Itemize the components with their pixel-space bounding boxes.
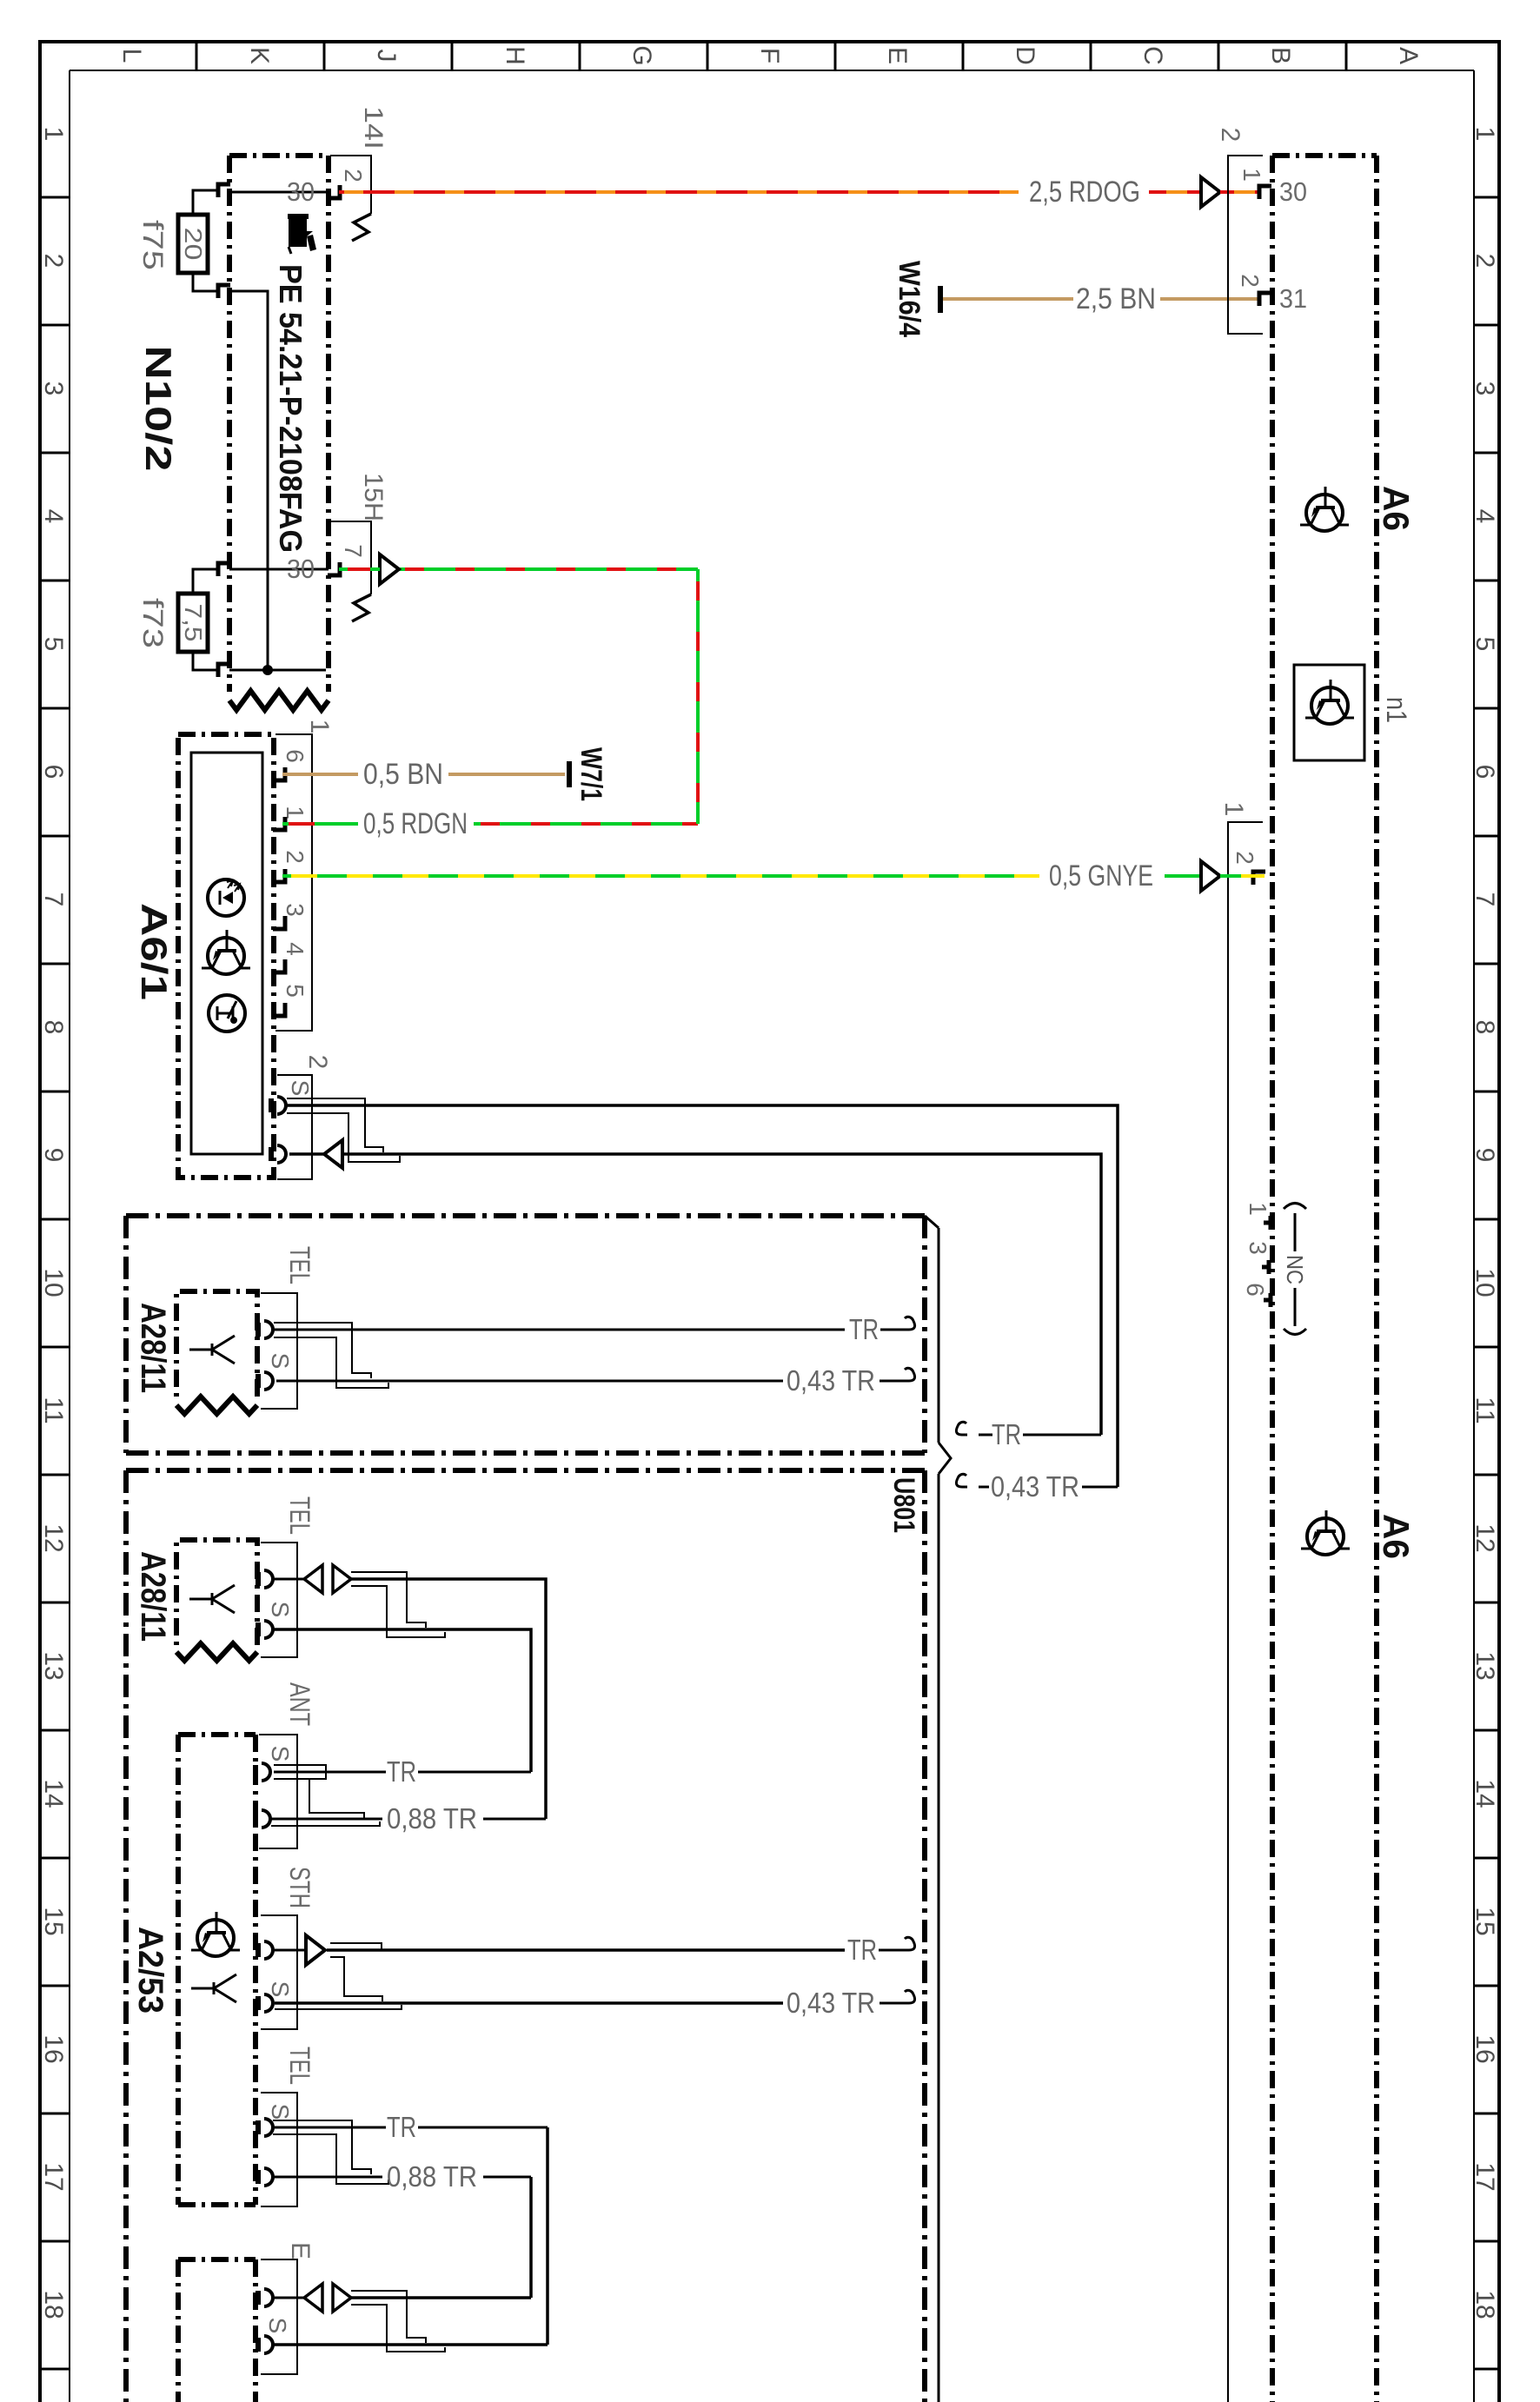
wire 2,5 BN [943,297,1073,301]
A6 connector 1 (lower, long) [1228,822,1263,2402]
svg-text:2: 2 [340,169,367,182]
svg-text:U801: U801 [887,1477,920,1533]
svg-text:7: 7 [39,892,68,907]
antenna symbol [191,1987,214,1990]
svg-text:3: 3 [282,903,309,917]
svg-text:D: D [1011,46,1039,65]
wire E pin1 to riser [351,2296,531,2299]
svg-text:ANT: ANT [284,1682,315,1726]
wire 0,88 TR from ANT [271,1818,382,1821]
svg-text:16: 16 [1470,2034,1499,2063]
svg-text:12: 12 [39,1523,68,1552]
svg-text:A6/1: A6/1 [134,903,175,1000]
svg-text:F: F [755,48,784,63]
wire TR from ANT [274,1771,386,1774]
svg-text:2: 2 [1231,851,1258,865]
svg-text:0,43 TR: 0,43 TR [991,1470,1079,1503]
RDGN riser [696,569,700,824]
wire TR row [327,1948,845,1952]
svg-text:S: S [267,1353,294,1370]
svg-text:5: 5 [39,637,68,652]
svg-text:18: 18 [1470,2290,1499,2319]
svg-text:A28/11: A28/11 [134,1303,172,1393]
svg-text:PE 54.21-P-2108FAG: PE 54.21-P-2108FAG [273,264,309,553]
box n1 [1294,665,1364,760]
component A28/11 (upper) [176,1291,257,1397]
svg-text:W7/1: W7/1 [574,747,607,801]
svg-text:4: 4 [282,942,309,956]
svg-text:3: 3 [1245,1241,1271,1255]
svg-text:12: 12 [1470,1523,1499,1552]
svg-text:TR: TR [992,1418,1021,1450]
svg-text:11: 11 [1470,1397,1499,1423]
double arrow E [274,2297,304,2299]
svg-text:C: C [1138,46,1167,65]
svg-text:1: 1 [305,720,334,734]
svg-text:S: S [267,1602,294,1618]
riser TEL 0,88TR down to E pin1 [529,2177,533,2298]
svg-text:10: 10 [39,1268,68,1297]
transistor symbol in A6/1 [208,938,244,974]
svg-text:TR: TR [387,1755,416,1788]
svg-text:S: S [267,1981,294,1998]
svg-text:S: S [287,1080,314,1097]
pin marks N10/2 [218,184,230,197]
connector 14I [330,156,371,214]
A6/1 connector 1 frame [275,734,312,1031]
svg-text:1: 1 [1219,802,1248,817]
component A28/11 (lower) [176,1540,257,1645]
shield box U801 upper [126,1213,925,1218]
TEL connector frame [261,1293,297,1409]
svg-text:6: 6 [1470,765,1499,780]
wire fuse f73 to pin [193,652,218,670]
svg-text:TEL: TEL [284,2047,315,2085]
svg-text:0,88 TR: 0,88 TR [387,1802,477,1835]
svg-text:15: 15 [39,1907,68,1935]
STH connector frame [261,1915,297,2029]
stub TR [956,1422,967,1435]
wire S pair upper [287,1105,1118,1487]
svg-text:11: 11 [39,1397,68,1423]
svg-text:4: 4 [1470,509,1499,524]
transistor symbol in A6 (bottom) [1307,1518,1344,1555]
svg-text:N10/2: N10/2 [138,346,179,472]
svg-text:3: 3 [1470,382,1499,396]
svg-text:7,5: 7,5 [180,604,207,642]
svg-text:8: 8 [1470,1020,1499,1035]
svg-text:17: 17 [39,2162,68,2191]
svg-text:S: S [264,2318,291,2334]
svg-text:H: H [501,46,529,65]
riser TEL TR down to E S [546,2127,549,2345]
manicule hand icon [288,214,316,254]
svg-text:30: 30 [1279,176,1307,207]
A6/1 connector 2 frame [277,1075,312,1179]
component A2/53 box [178,1732,256,1737]
lamp/sensor symbol [209,995,245,1032]
RDGN to 15H [398,567,698,571]
svg-text:4: 4 [39,509,68,524]
wire 0,5 BN to W7/1 [282,773,358,776]
svg-text:f73: f73 [137,598,169,648]
svg-text:TR: TR [847,1934,877,1966]
connector 15H [330,521,371,594]
svg-text:J: J [372,50,401,63]
svg-text:S: S [267,2104,294,2120]
pair steps TEL [273,2120,371,2174]
pair steps ANT [274,1765,326,1779]
svg-text:2: 2 [39,254,68,269]
svg-text:8: 8 [39,1020,68,1035]
svg-text:0,5 RDGN: 0,5 RDGN [363,807,468,840]
svg-text:0,43 TR: 0,43 TR [787,1364,875,1397]
svg-text:0,43 TR: 0,43 TR [787,1987,875,2019]
svg-text:16: 16 [39,2034,68,2063]
wire TR row TEL [273,2127,386,2129]
svg-text:1: 1 [1470,127,1499,142]
wire E S to riser [274,2343,548,2346]
wire 2,5 RDOG (red/orange) [339,190,1019,194]
pair steps [351,1572,426,1628]
control unit A6 box [1272,153,1377,158]
svg-text:15H: 15H [359,473,388,521]
svg-text:2,5 BN: 2,5 BN [1076,282,1156,315]
wire fuse f75 to pin 2 [193,273,218,291]
svg-text:A6: A6 [1376,1514,1417,1559]
svg-text:TR: TR [387,2111,416,2143]
svg-text:W16/4: W16/4 [893,261,926,337]
shield box U801 lower [126,1468,925,1473]
svg-text:0,5 BN: 0,5 BN [363,758,443,791]
svg-text:A6: A6 [1376,486,1417,531]
svg-text:0,5 GNYE: 0,5 GNYE [1049,859,1153,892]
A6/1 inner body [191,753,262,1154]
wire S to riser (down to TR) [274,1629,531,1772]
svg-text:f75: f75 [137,220,169,270]
svg-text:10: 10 [1470,1268,1499,1297]
svg-text:13: 13 [39,1651,68,1680]
svg-text:5: 5 [282,984,309,998]
antenna symbol [189,1349,212,1351]
svg-text:TEL: TEL [284,1496,315,1535]
twisted pair from A6/1 connector 2 [287,1098,383,1152]
pair steps [274,1323,371,1378]
E connector frame [261,2259,297,2374]
wire 0,5 RDGN [282,822,358,826]
fuse f75 [178,215,208,273]
svg-text:30: 30 [287,176,315,207]
svg-text:1: 1 [1245,1202,1271,1216]
svg-text:E: E [883,47,912,64]
TEL connector frame (A2/53) [261,2093,297,2206]
svg-text:2: 2 [1470,254,1499,269]
LED symbol [208,879,244,916]
svg-text:TR: TR [849,1313,879,1345]
svg-text:18: 18 [39,2290,68,2319]
wire 0,43 TR row [275,2001,783,2005]
svg-text:S: S [267,1746,294,1762]
wire 0,5 GNYE [282,874,1039,878]
N10/2 internal wires [229,191,329,194]
svg-text:2: 2 [1216,128,1245,143]
wire 0,88 TR row TEL [273,2176,382,2179]
TEL connector frame [261,1543,297,1657]
NC bracket [1284,1204,1306,1210]
svg-text:A: A [1394,47,1423,64]
pair steps E [351,2291,426,2343]
svg-text:3: 3 [39,382,68,396]
svg-text:L: L [117,49,146,63]
svg-text:A2/53: A2/53 [131,1927,169,2014]
fuse f73 [178,594,208,652]
component A6/1 box [178,734,274,1178]
svg-text:6: 6 [282,749,309,763]
svg-text:7: 7 [1470,892,1499,907]
wire 0,43 TR [276,1380,783,1383]
svg-text:G: G [627,45,656,65]
svg-text:1: 1 [39,127,68,142]
svg-text:B: B [1266,47,1295,64]
transistor symbol in A6 (top) [1306,494,1343,531]
svg-text:2,5 RDOG: 2,5 RDOG [1029,176,1140,209]
svg-text:7: 7 [340,544,367,558]
arrow RDOG [1201,177,1220,207]
svg-text:A28/11: A28/11 [134,1551,172,1642]
svg-text:20: 20 [180,228,207,261]
wire TR (shield TR) [274,1329,845,1331]
svg-text:n1: n1 [1381,697,1412,723]
svg-text:9: 9 [39,1148,68,1163]
wire fuse f75 to pin 1 [193,190,218,215]
svg-text:14: 14 [1470,1779,1499,1808]
svg-text:1: 1 [1238,168,1265,182]
svg-text:17: 17 [1470,2162,1499,2191]
stub 0,43 TR [956,1474,967,1487]
svg-text:E: E [286,2242,315,2259]
wire to riser (down to 0,88 TR) [351,1579,546,1819]
svg-text:TEL: TEL [284,1246,315,1284]
svg-text:K: K [245,47,274,64]
transistor symbol in A2/53 [197,1920,234,1956]
svg-text:9: 9 [1470,1148,1499,1163]
svg-text:13: 13 [1470,1651,1499,1680]
ground W16/4 [938,286,943,313]
svg-text:STH: STH [284,1867,315,1908]
svg-text:14I: 14I [359,106,388,149]
svg-text:2: 2 [1237,274,1264,288]
A6 connector 2 (top right) [1228,156,1263,334]
transistor symbol in n1 [1311,687,1348,724]
shield join chevron [925,1216,939,1228]
svg-text:6: 6 [1242,1283,1269,1297]
svg-text:2: 2 [303,1055,332,1070]
component box E [178,2257,256,2262]
svg-text:31: 31 [1279,283,1307,314]
pair steps STH [330,1943,382,1949]
antenna symbol [189,1598,212,1601]
double arrow [274,1578,304,1581]
wire S pair lower [289,1154,1101,1435]
svg-text:14: 14 [39,1779,68,1808]
ANT connector frame [259,1735,297,1848]
svg-text:2: 2 [282,850,309,864]
svg-text:5: 5 [1470,637,1499,652]
svg-text:6: 6 [39,765,68,780]
svg-text:NC: NC [1282,1255,1308,1284]
svg-text:15: 15 [1470,1907,1499,1935]
ground W7/1 [567,761,572,787]
svg-text:0,88 TR: 0,88 TR [387,2160,477,2193]
svg-text:30: 30 [287,554,315,584]
wire pin to fuse f73 [193,569,218,594]
component N10/2 box [229,153,329,158]
